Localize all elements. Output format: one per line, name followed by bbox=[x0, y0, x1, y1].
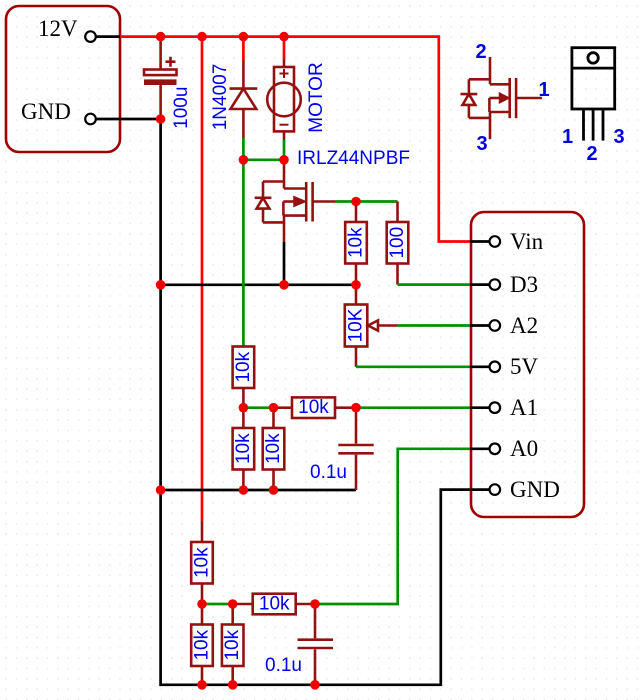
node junction bottom rail C3 bbox=[310, 680, 320, 690]
wire GND pin to C1 bottom node bbox=[95, 118, 161, 121]
svg-text:10k: 10k bbox=[222, 629, 243, 660]
svg-text:2: 2 bbox=[475, 41, 486, 63]
resistor R6 10k divider bbox=[263, 408, 285, 490]
svg-text:1: 1 bbox=[538, 79, 549, 101]
svg-text:10k: 10k bbox=[192, 547, 213, 578]
resistor R3 10k sense top bbox=[233, 346, 255, 408]
node junction gate at R1 bbox=[351, 197, 361, 207]
transistor Q2 reference MOSFET symbol top right bbox=[461, 57, 542, 139]
node junction source at mid line bbox=[279, 280, 289, 290]
resistor R8 10k horizontal bottom bbox=[233, 594, 315, 615]
wire Q1 source to mid line bbox=[283, 242, 286, 285]
node junction 12V rail at M1 bbox=[279, 32, 289, 42]
diode D1 1N4007 bbox=[230, 37, 258, 160]
svg-text:10k: 10k bbox=[346, 227, 367, 258]
resistor R10 10k divider bottom bbox=[222, 604, 244, 685]
svg-text:GND: GND bbox=[21, 99, 71, 124]
pin Vin bbox=[470, 229, 543, 254]
node junction A1 row at R4 bbox=[269, 403, 279, 413]
pin A1 bbox=[470, 395, 538, 420]
pin 12V terminal bbox=[85, 31, 96, 42]
svg-text:12V: 12V bbox=[38, 16, 78, 41]
pin 5V bbox=[470, 354, 538, 379]
svg-text:100: 100 bbox=[387, 227, 408, 259]
wire green to A0 pin bbox=[315, 449, 470, 604]
capacitor C1 100u electrolytic bbox=[144, 37, 177, 119]
pin A0 bbox=[470, 436, 538, 461]
pin A2 bbox=[470, 313, 538, 338]
wire black mid line y=285 bbox=[161, 283, 356, 286]
package U1 TO-220 outline bbox=[572, 48, 615, 141]
node junction R5 bottom bbox=[239, 485, 249, 495]
svg-text:10k: 10k bbox=[259, 594, 290, 615]
node junction 12V rail at C1 bbox=[156, 32, 166, 42]
node junction GND at C1 bbox=[156, 114, 166, 124]
motor M1 bbox=[267, 37, 301, 160]
potentiometer RV1 10K bbox=[345, 285, 397, 367]
wire green A0 node short bbox=[202, 603, 233, 606]
node junction GND mid line left bbox=[156, 280, 166, 290]
node junction A0 row at R8 bbox=[228, 599, 238, 609]
connector J1 12V power supply box bbox=[6, 6, 120, 152]
svg-text:10k: 10k bbox=[298, 397, 329, 418]
transistor Q1 IRLZ44NPBF bbox=[255, 160, 335, 242]
wire red branch to R7 top bbox=[201, 37, 204, 521]
node junction 12V rail at R7 branch bbox=[197, 32, 207, 42]
wire +12V rail to Vin bbox=[120, 37, 470, 242]
svg-text:10K: 10K bbox=[346, 308, 367, 342]
connector J2 Arduino header box bbox=[471, 212, 584, 517]
wire green wiper to A2 bbox=[397, 324, 470, 327]
wire green to A1 pin bbox=[356, 406, 470, 409]
node junction A1 row at R3 bbox=[239, 403, 249, 413]
svg-text:A1: A1 bbox=[510, 395, 538, 420]
node junction R1 bottom pot top bbox=[351, 280, 361, 290]
svg-text:10k: 10k bbox=[233, 433, 254, 464]
node junction bottom rail R9 bbox=[197, 680, 207, 690]
svg-text:D3: D3 bbox=[510, 272, 538, 297]
svg-text:3: 3 bbox=[476, 133, 487, 155]
svg-text:0.1u: 0.1u bbox=[265, 655, 302, 676]
wire green R2 bottom to D3 bbox=[398, 283, 471, 286]
svg-text:10k: 10k bbox=[233, 351, 254, 382]
svg-text:GND: GND bbox=[510, 477, 560, 502]
wire green drain node bbox=[243, 158, 284, 161]
svg-text:1N4007: 1N4007 bbox=[210, 64, 231, 131]
resistor R1 10k gate pulldown bbox=[345, 202, 367, 285]
svg-text:A2: A2 bbox=[510, 313, 538, 338]
node junction bottom rail R10 bbox=[228, 680, 238, 690]
node junction A0 row at C3 bbox=[310, 599, 320, 609]
svg-text:5V: 5V bbox=[510, 354, 539, 379]
svg-text:A0: A0 bbox=[510, 436, 538, 461]
pin GND terminal bbox=[85, 114, 96, 125]
node junction drain at D1 bbox=[239, 155, 249, 165]
resistor R9 10k divider bottom bbox=[191, 604, 213, 685]
svg-text:100u: 100u bbox=[171, 87, 192, 129]
pin D3 bbox=[470, 272, 538, 297]
node junction A0 row at R7 bbox=[197, 599, 207, 609]
node junction GND 490 left bbox=[156, 485, 166, 495]
svg-text:Vin: Vin bbox=[510, 229, 544, 254]
svg-text:10k: 10k bbox=[192, 629, 213, 660]
svg-text:IRLZ44NPBF: IRLZ44NPBF bbox=[297, 148, 410, 169]
wire 12V pin to box edge bbox=[95, 35, 120, 38]
wire gate green to R1/R2 tops bbox=[335, 200, 398, 203]
node junction A1 row at C2 bbox=[351, 403, 361, 413]
node junction 12V rail at D1 bbox=[239, 32, 249, 42]
wire green RV1 bottom to 5V bbox=[356, 365, 470, 368]
wire GND net: left vertical, bottom rail, up to GND pin bbox=[161, 119, 471, 685]
svg-text:2: 2 bbox=[586, 143, 597, 165]
resistor R2 100 gate series bbox=[387, 202, 409, 285]
capacitor C2 0.1u bbox=[338, 408, 373, 490]
svg-text:3: 3 bbox=[613, 126, 624, 148]
node junction drain at M1 bbox=[279, 155, 289, 165]
resistor R5 10k divider bbox=[233, 408, 255, 490]
svg-text:MOTOR: MOTOR bbox=[306, 62, 327, 132]
wire black line y=490 bbox=[161, 489, 356, 492]
svg-text:1: 1 bbox=[562, 126, 573, 148]
wire green A1 node bbox=[243, 406, 273, 409]
resistor R4 10k horizontal bbox=[274, 397, 357, 418]
node junction R6 bottom bbox=[269, 485, 279, 495]
svg-text:10k: 10k bbox=[263, 433, 284, 464]
resistor R7 10k bottom from +12V bbox=[191, 521, 213, 604]
pin GND bbox=[470, 477, 560, 502]
svg-text:0.1u: 0.1u bbox=[310, 462, 347, 483]
wire green sense branch down to R3 bbox=[242, 160, 245, 346]
capacitor C3 0.1u bottom bbox=[298, 604, 334, 685]
